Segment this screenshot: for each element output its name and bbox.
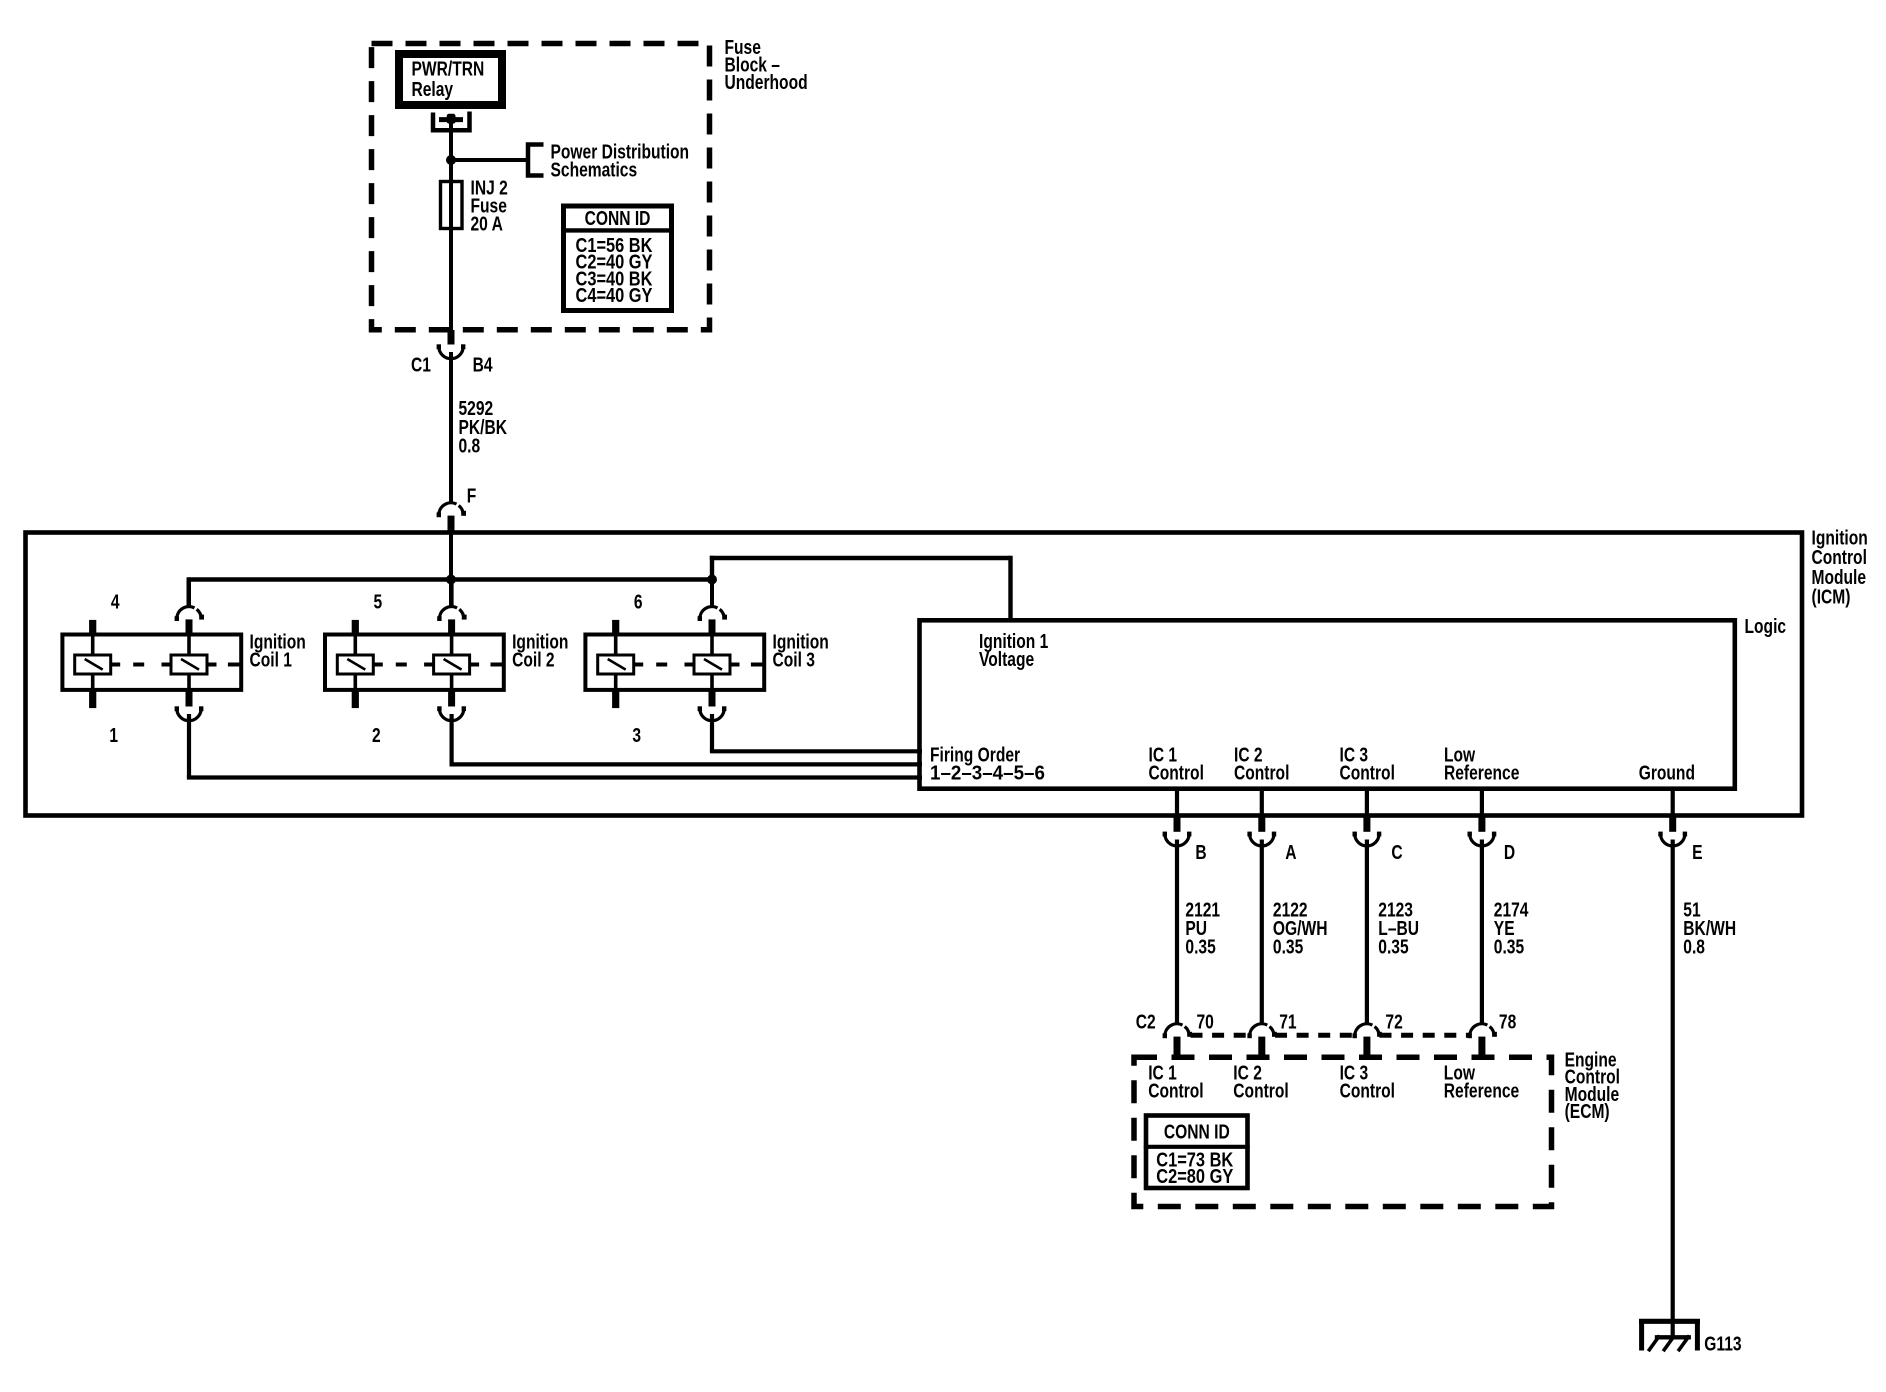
wire logic to ICM pin A xyxy=(1260,789,1264,816)
connector A xyxy=(1247,816,1296,864)
ECM IC 3 control label xyxy=(1340,1062,1395,1102)
svg-text:Schematics: Schematics xyxy=(551,159,638,181)
pin 1 xyxy=(109,724,118,746)
conn id table ECM xyxy=(1144,1116,1250,1189)
svg-text:Coil 1: Coil 1 xyxy=(250,649,292,671)
logic label xyxy=(1745,615,1787,637)
coil 3 secondary winding element xyxy=(694,635,730,691)
svg-text:71: 71 xyxy=(1279,1010,1296,1032)
svg-text:Relay: Relay xyxy=(412,78,454,100)
svg-text:PWR/TRN: PWR/TRN xyxy=(412,58,485,80)
svg-text:Control: Control xyxy=(1234,762,1289,784)
svg-text:B4: B4 xyxy=(473,354,493,376)
coil 2 top connector xyxy=(437,581,466,637)
wire to logic ignition 1 voltage xyxy=(710,556,1011,620)
svg-text:1–2–3–4–5–6: 1–2–3–4–5–6 xyxy=(930,762,1045,785)
connector E xyxy=(1658,816,1702,864)
svg-text:G113: G113 xyxy=(1704,1332,1741,1354)
coil 3 bottom connector xyxy=(698,689,727,720)
ECM pin 78 connector xyxy=(1468,1010,1517,1058)
ECM IC 1 control label xyxy=(1148,1062,1203,1102)
pin 4 xyxy=(111,591,120,613)
dashed connector line xyxy=(1191,1033,1470,1038)
svg-text:C4=40 GY: C4=40 GY xyxy=(576,284,653,307)
ECM IC 2 control label xyxy=(1233,1062,1288,1102)
ignition control module ICM box xyxy=(26,533,1803,816)
node coil2 feed xyxy=(446,575,456,585)
ECM pin 71 connector xyxy=(1247,1010,1296,1058)
wire logic to ICM pin C xyxy=(1365,789,1369,816)
relay PWR/TRN box xyxy=(399,54,502,105)
svg-text:E: E xyxy=(1692,841,1702,863)
junction node xyxy=(446,155,456,165)
wire to power distribution xyxy=(449,158,528,162)
svg-text:4: 4 xyxy=(111,591,120,613)
wire coil 2 to logic xyxy=(450,714,923,764)
svg-text:(ECM): (ECM) xyxy=(1565,1100,1610,1122)
coil 2 secondary winding element xyxy=(434,635,470,691)
ignition coil 3 label xyxy=(773,631,829,671)
svg-text:Reference: Reference xyxy=(1444,762,1519,784)
svg-text:CONN ID: CONN ID xyxy=(585,207,651,229)
wire coil 3 to logic xyxy=(710,714,922,751)
svg-text:Logic: Logic xyxy=(1745,615,1787,637)
low reference label xyxy=(1444,744,1519,784)
node coil3 feed xyxy=(707,575,717,585)
IC 1 control label xyxy=(1149,744,1204,784)
svg-text:C1: C1 xyxy=(411,354,431,376)
svg-text:1: 1 xyxy=(109,724,118,746)
connector D xyxy=(1468,816,1516,864)
svg-text:Reference: Reference xyxy=(1444,1080,1519,1102)
pin 5 xyxy=(373,591,382,613)
relay contact xyxy=(433,112,470,131)
svg-text:B: B xyxy=(1195,841,1206,863)
svg-text:F: F xyxy=(467,485,477,507)
svg-text:2: 2 xyxy=(372,724,381,746)
wire logic to ICM pin D xyxy=(1480,789,1484,816)
engine control module ECM dashed box xyxy=(1134,1057,1552,1206)
wire 2174 YE xyxy=(1482,840,1529,1025)
ECM low reference label xyxy=(1444,1062,1519,1102)
ignition coil 1 box xyxy=(62,635,241,690)
connector C2 label xyxy=(1136,1010,1156,1032)
svg-text:Control: Control xyxy=(1233,1080,1288,1102)
svg-text:0.8: 0.8 xyxy=(1683,936,1705,958)
connector C1 B4 xyxy=(411,330,493,376)
wire 2121 PU xyxy=(1177,840,1220,1025)
svg-text:C2: C2 xyxy=(1136,1010,1156,1032)
coil 1 top connector xyxy=(175,581,204,637)
ECM pin 70 connector xyxy=(1163,1010,1214,1058)
svg-text:(ICM): (ICM) xyxy=(1812,586,1851,608)
svg-text:6: 6 xyxy=(634,591,643,613)
svg-text:CONN ID: CONN ID xyxy=(1164,1121,1230,1143)
ignition coil 2 label xyxy=(512,631,568,671)
svg-text:Underhood: Underhood xyxy=(725,71,808,93)
firing order label xyxy=(930,744,1045,785)
fuse block label xyxy=(725,36,808,93)
svg-text:C2=80 GY: C2=80 GY xyxy=(1156,1165,1233,1188)
coil 2 primary winding element xyxy=(337,620,373,708)
ignition 1 voltage label xyxy=(979,630,1048,670)
connector C xyxy=(1353,816,1403,864)
svg-text:70: 70 xyxy=(1197,1010,1214,1032)
svg-text:3: 3 xyxy=(632,724,641,746)
ICM label xyxy=(1812,527,1868,608)
coil 2 bottom connector xyxy=(437,689,466,720)
wire rail to coils xyxy=(189,534,713,607)
svg-text:72: 72 xyxy=(1385,1010,1402,1032)
svg-text:0.35: 0.35 xyxy=(1273,936,1303,958)
wire from relay to fuse xyxy=(449,121,453,331)
svg-text:20 A: 20 A xyxy=(471,213,503,235)
svg-text:0.8: 0.8 xyxy=(459,435,481,457)
svg-text:A: A xyxy=(1285,841,1296,863)
svg-text:Coil 3: Coil 3 xyxy=(773,649,815,671)
wire logic to ICM pin E xyxy=(1671,789,1675,816)
svg-text:78: 78 xyxy=(1499,1010,1516,1032)
wire 51 BK/WH xyxy=(1673,840,1736,1340)
IC 2 control label xyxy=(1234,744,1289,784)
svg-text:Control: Control xyxy=(1148,1080,1203,1102)
pin 6 xyxy=(634,591,643,613)
svg-text:Ground: Ground xyxy=(1639,762,1695,784)
wire 2122 OG/WH xyxy=(1262,840,1328,1025)
conn id table fuse block xyxy=(561,206,672,311)
ground G113 xyxy=(1639,1321,1742,1355)
svg-text:Voltage: Voltage xyxy=(979,648,1034,670)
svg-text:Control: Control xyxy=(1340,762,1395,784)
wire coil 1 to logic xyxy=(187,714,922,778)
fuse block underhood dashed box xyxy=(372,44,710,330)
coil 3 top connector xyxy=(698,581,727,637)
ECM pin 72 connector xyxy=(1353,1010,1403,1058)
svg-text:0.35: 0.35 xyxy=(1494,936,1524,958)
ignition coil 1 label xyxy=(250,631,306,671)
ignition coil 3 box xyxy=(585,635,764,690)
svg-text:D: D xyxy=(1504,841,1515,863)
svg-text:0.35: 0.35 xyxy=(1378,936,1408,958)
IC 3 control label xyxy=(1340,744,1395,784)
coil 1 bottom connector xyxy=(175,689,204,720)
ground label xyxy=(1639,762,1695,784)
coil 1 secondary winding element xyxy=(171,635,207,691)
coil 3 primary winding element xyxy=(598,620,634,708)
svg-text:C: C xyxy=(1391,841,1402,863)
wire 2123 L&#8211;BU xyxy=(1367,840,1419,1025)
svg-text:Control: Control xyxy=(1149,762,1204,784)
pin 2 xyxy=(372,724,381,746)
svg-text:0.35: 0.35 xyxy=(1185,936,1215,958)
power distribution schematics bracket xyxy=(528,141,689,181)
fuse INJ 2 20 A xyxy=(441,177,508,235)
wire logic to ICM pin B xyxy=(1175,789,1179,816)
svg-text:Control: Control xyxy=(1340,1080,1395,1102)
connector B xyxy=(1163,816,1207,864)
logic box xyxy=(920,620,1735,788)
ECM label xyxy=(1565,1049,1620,1123)
ignition coil 2 box xyxy=(325,635,504,690)
connector F xyxy=(437,485,477,535)
coil 1 primary winding element xyxy=(75,620,111,708)
pin 3 xyxy=(632,724,641,746)
svg-text:5: 5 xyxy=(373,591,382,613)
wire 5292 PK/BK 0.8 xyxy=(451,352,507,504)
svg-text:Coil 2: Coil 2 xyxy=(512,649,554,671)
